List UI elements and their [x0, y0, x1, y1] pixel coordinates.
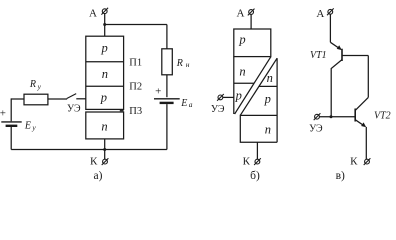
wire Ea to bottom bus: [166, 104, 168, 149]
svg-text:E: E: [180, 98, 187, 109]
battery Eu short plate: [6, 125, 18, 127]
svg-text:p: p: [235, 88, 242, 102]
wire A to VT1 emitter: [329, 14, 331, 42]
svg-text:б): б): [250, 170, 260, 182]
svg-text:н: н: [186, 60, 190, 69]
junction dash P3 (inside right edge, bridging the two boxes): [120, 110, 124, 112]
svg-text:в): в): [336, 170, 345, 182]
left column edge (fig b): [233, 57, 235, 114]
junction dot top: [103, 23, 106, 26]
svg-text:у: у: [37, 82, 42, 91]
transistor VT1 collector: [331, 60, 342, 117]
wire top bus to load branch: [105, 24, 167, 26]
top box p (fig b): [234, 29, 271, 57]
svg-text:А: А: [316, 8, 324, 20]
svg-text:n: n: [239, 65, 245, 79]
svg-text:УЭ: УЭ: [211, 104, 225, 115]
battery Eu long plate: [1, 121, 21, 123]
svg-text:n: n: [265, 122, 271, 136]
svg-text:n: n: [267, 71, 273, 85]
svg-text:К: К: [90, 156, 98, 168]
diagonal split line 2: [240, 58, 277, 115]
terminal UE (fig b): [217, 94, 224, 101]
terminal UE (fig v): [314, 113, 321, 120]
svg-text:p: p: [100, 41, 107, 55]
transistor VT1 emitter with arrow: [330, 42, 340, 49]
wire VT1 base to right rail: [342, 55, 368, 57]
svg-text:А: А: [237, 8, 245, 20]
terminal K (fig v): [364, 158, 371, 165]
terminal A (fig v): [327, 8, 334, 15]
bottom box n (fig b): [240, 115, 277, 142]
svg-text:+: +: [0, 108, 6, 120]
wire Ru to switch: [48, 98, 67, 100]
junction dot (VT1 collector / UE wire): [330, 115, 333, 118]
right column edge (fig b): [276, 58, 278, 142]
terminal A (fig b): [248, 9, 255, 16]
wire load branch down to Rn: [166, 25, 168, 49]
wire right rail down to VT2 collector: [367, 56, 369, 98]
battery Ea long plate: [154, 98, 180, 100]
svg-text:p: p: [238, 32, 245, 46]
resistor Rn: [162, 49, 173, 75]
semiconductor stack upper box (p-n-p): [86, 36, 124, 109]
terminal A (fig a): [101, 8, 108, 15]
svg-text:p: p: [100, 90, 107, 104]
wire stack bottom to K terminal: [104, 139, 106, 159]
wire Rn to Ea: [166, 75, 168, 97]
wire corner down to Eu: [10, 98, 12, 121]
wire switch to stack (UE electrode): [76, 98, 86, 100]
svg-text:УЭ: УЭ: [67, 104, 81, 115]
right column separator n/p: [259, 85, 277, 87]
terminal K (fig a): [102, 158, 109, 165]
svg-text:а): а): [94, 170, 103, 182]
wire UE to left p: [223, 96, 234, 98]
resistor Ru: [24, 94, 48, 105]
bottom bus wire: [11, 149, 167, 151]
svg-text:К: К: [350, 155, 358, 167]
transistor VT2 emitter with arrow: [355, 120, 364, 126]
svg-text:УЭ: УЭ: [309, 124, 323, 135]
wire left corner to Ru: [11, 98, 24, 100]
wire A to top p box: [250, 14, 252, 29]
svg-text:П2: П2: [129, 82, 142, 93]
wire A terminal to stack top: [104, 14, 106, 37]
svg-text:+: +: [155, 86, 161, 98]
svg-text:К: К: [243, 156, 251, 168]
left column separator n/p: [234, 82, 254, 84]
terminal K (fig b): [254, 158, 261, 165]
wire bottom n to K (fig b): [256, 142, 258, 159]
svg-text:R: R: [29, 79, 36, 90]
wire UE to VT2 base: [319, 116, 355, 118]
svg-text:А: А: [89, 8, 97, 20]
diagonal split line 1: [235, 57, 271, 114]
svg-text:n: n: [101, 119, 107, 133]
semiconductor stack lower box (n): [86, 112, 124, 139]
wire Eu to bottom bus: [10, 127, 12, 150]
svg-text:VT1: VT1: [310, 50, 327, 61]
junction line P1: [86, 61, 124, 63]
junction line P2: [86, 85, 124, 87]
wire VT2 emitter to K: [365, 127, 367, 159]
svg-text:p: p: [264, 92, 271, 106]
battery Ea short plate: [160, 102, 174, 104]
svg-text:а: а: [189, 100, 193, 109]
switch S blade: [67, 94, 76, 99]
svg-text:П3: П3: [129, 106, 142, 117]
junction dot bottom: [103, 148, 106, 151]
transistor VT1 base bar: [341, 49, 343, 61]
svg-text:VT2: VT2: [374, 110, 391, 121]
svg-text:у: у: [31, 123, 36, 132]
svg-text:E: E: [24, 121, 31, 132]
transistor VT2 base bar: [354, 109, 356, 122]
svg-text:П1: П1: [129, 58, 142, 69]
svg-text:n: n: [102, 67, 108, 81]
svg-text:R: R: [176, 58, 183, 69]
transistor VT2 collector: [355, 97, 368, 110]
